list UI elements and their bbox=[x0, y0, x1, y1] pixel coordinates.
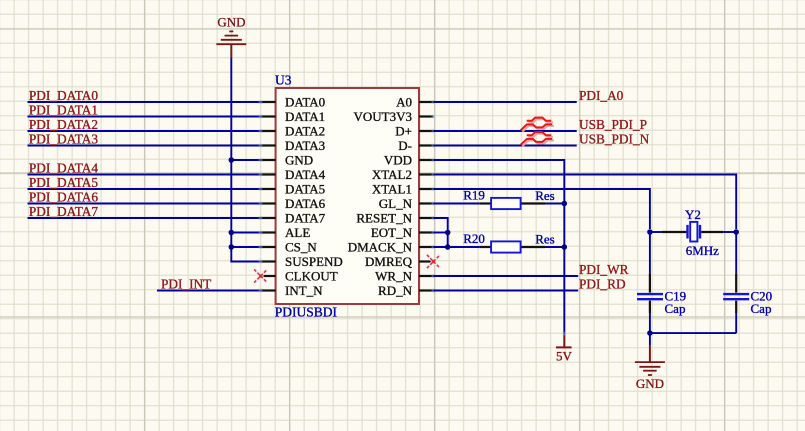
capacitor C19 bbox=[637, 273, 663, 313]
wire VDD net to 5V rail bbox=[434, 160, 565, 334]
wire C20 to ground rail bbox=[735, 313, 737, 333]
pin SUSPEND bbox=[259, 254, 343, 269]
resistor R19 bbox=[479, 198, 545, 209]
svg-text:GND: GND bbox=[285, 152, 313, 167]
pin EOT_N bbox=[371, 225, 436, 240]
wire GND pin row bbox=[231, 159, 260, 161]
svg-text:PDI_DATA7: PDI_DATA7 bbox=[29, 204, 98, 219]
wire R20 to 5V rail bbox=[545, 246, 564, 248]
power symbol GND (top) bbox=[216, 15, 246, 58]
svg-text:Y2: Y2 bbox=[685, 207, 701, 222]
svg-text:6MHz: 6MHz bbox=[686, 243, 719, 258]
capacitor C20 bbox=[723, 273, 749, 313]
wire XTAL2 down to C20 bbox=[735, 232, 737, 273]
wire R19 to 5V rail bbox=[545, 203, 564, 205]
pin VOUT3V3 bbox=[354, 109, 436, 124]
wire A0 net bbox=[434, 101, 577, 103]
pin A0 bbox=[396, 94, 435, 109]
svg-text:U3: U3 bbox=[275, 73, 292, 88]
svg-text:GND: GND bbox=[636, 376, 664, 391]
wire XTAL2 net bbox=[434, 175, 737, 230]
pin XTAL1 bbox=[372, 181, 436, 196]
svg-text:D-: D- bbox=[398, 138, 412, 153]
svg-text:Res: Res bbox=[535, 188, 555, 203]
pin DATA3 bbox=[259, 138, 326, 153]
svg-text:Cap: Cap bbox=[751, 301, 772, 316]
pin DATA7 bbox=[259, 210, 326, 225]
svg-text:D+: D+ bbox=[395, 123, 412, 138]
svg-text:PDI_DATA2: PDI_DATA2 bbox=[29, 117, 98, 132]
resistor R20 bbox=[479, 241, 545, 252]
svg-text:PDIUSBDI: PDIUSBDI bbox=[275, 304, 338, 319]
wire PDI_DATA0 bbox=[28, 101, 261, 103]
pin CS_N bbox=[259, 239, 318, 254]
svg-text:DATA0: DATA0 bbox=[285, 94, 325, 109]
pin XTAL2 bbox=[372, 167, 436, 182]
svg-text:XTAL2: XTAL2 bbox=[372, 167, 412, 182]
wire PDI_DATA2 bbox=[28, 130, 261, 132]
wire DMACK_N to R20 bbox=[434, 246, 480, 248]
wire C19 to ground rail bbox=[649, 313, 651, 333]
junction EOT_N bbox=[445, 230, 451, 236]
svg-text:DATA7: DATA7 bbox=[285, 210, 326, 225]
wire D- net bbox=[434, 145, 577, 147]
svg-text:Cap: Cap bbox=[665, 301, 686, 316]
wire PDI_DATA1 bbox=[28, 116, 261, 118]
svg-text:R20: R20 bbox=[463, 231, 485, 246]
svg-text:INT_N: INT_N bbox=[285, 283, 323, 298]
pin D- bbox=[398, 138, 435, 153]
wire WR_N net bbox=[434, 275, 579, 277]
svg-text:SUSPEND: SUSPEND bbox=[285, 254, 343, 269]
svg-text:CS_N: CS_N bbox=[285, 239, 317, 254]
junction R20/5V rail bbox=[562, 244, 568, 250]
svg-text:DMACK_N: DMACK_N bbox=[348, 239, 413, 254]
wire PDI_DATA7 bbox=[28, 217, 261, 219]
pin DATA4 bbox=[259, 167, 326, 182]
pin WR_N bbox=[375, 268, 435, 283]
svg-text:GND: GND bbox=[217, 15, 245, 30]
junction at GND pin bbox=[229, 157, 235, 163]
pin ALE bbox=[259, 225, 311, 240]
wire PDI_DATA4 bbox=[28, 174, 261, 176]
svg-text:EOT_N: EOT_N bbox=[371, 225, 413, 240]
pin DATA2 bbox=[259, 123, 326, 138]
pin VDD bbox=[384, 152, 436, 167]
svg-text:XTAL1: XTAL1 bbox=[372, 181, 412, 196]
svg-text:GL_N: GL_N bbox=[379, 196, 413, 211]
svg-text:DMREQ: DMREQ bbox=[365, 254, 413, 269]
svg-text:DATA2: DATA2 bbox=[285, 123, 325, 138]
wire crystal right stub bbox=[723, 231, 736, 233]
svg-text:PDI_A0: PDI_A0 bbox=[579, 88, 624, 103]
svg-text:USB_PDI_P: USB_PDI_P bbox=[579, 117, 647, 132]
wire XTAL1 down to C19 bbox=[649, 232, 651, 273]
svg-text:RESET_N: RESET_N bbox=[356, 210, 412, 225]
svg-text:PDI_DATA5: PDI_DATA5 bbox=[29, 175, 98, 190]
wire PDI_INT bbox=[157, 290, 261, 292]
no-ERC marker at DMREQ bbox=[427, 255, 440, 268]
wire RD_N net bbox=[434, 290, 579, 292]
wire XTAL1 net bbox=[434, 189, 650, 229]
wire ground rail bbox=[650, 332, 736, 334]
wire PDI_DATA5 bbox=[28, 188, 261, 190]
svg-text:PDI_DATA1: PDI_DATA1 bbox=[29, 103, 98, 118]
wire RESET_N net bbox=[434, 218, 448, 247]
svg-text:PDI_DATA3: PDI_DATA3 bbox=[29, 132, 98, 147]
pin DATA6 bbox=[259, 196, 326, 211]
junction DMACK_N bbox=[445, 244, 451, 250]
junction ground rail bbox=[647, 330, 653, 336]
pin GL_N bbox=[379, 196, 436, 211]
svg-text:VOUT3V3: VOUT3V3 bbox=[354, 109, 413, 124]
pin RD_N bbox=[378, 283, 435, 298]
svg-text:VDD: VDD bbox=[384, 152, 412, 167]
svg-text:RD_N: RD_N bbox=[378, 283, 413, 298]
svg-text:R19: R19 bbox=[463, 188, 485, 203]
wire GL_N to R19 bbox=[434, 203, 480, 205]
svg-text:PDI_DATA0: PDI_DATA0 bbox=[29, 88, 98, 103]
junction XTAL1/crystal/C19 bbox=[647, 229, 653, 235]
svg-text:DATA3: DATA3 bbox=[285, 138, 325, 153]
svg-text:PDI_WR: PDI_WR bbox=[579, 262, 629, 277]
svg-text:USB_PDI_N: USB_PDI_N bbox=[579, 132, 650, 147]
wire ALE row bbox=[231, 232, 260, 234]
wire CS_N row bbox=[231, 246, 260, 248]
wire EOT_N net bbox=[434, 232, 448, 234]
junction at CS_N bbox=[229, 244, 235, 250]
power symbol 5V bbox=[556, 332, 573, 364]
crystal Y2 bbox=[662, 222, 723, 242]
pin GND bbox=[259, 152, 314, 167]
differential pair marker (D-) bbox=[522, 134, 554, 147]
wire PDI_DATA6 bbox=[28, 203, 261, 205]
svg-text:PDI_INT: PDI_INT bbox=[161, 277, 211, 292]
IC U3 PDIUSBD12 body bbox=[276, 88, 419, 304]
pin DATA1 bbox=[259, 109, 326, 124]
pin DATA0 bbox=[259, 94, 326, 109]
junction R19/5V rail bbox=[562, 201, 568, 207]
junction at ALE bbox=[229, 230, 235, 236]
wire D+ net bbox=[434, 130, 577, 132]
svg-text:ALE: ALE bbox=[285, 225, 310, 240]
svg-text:DATA6: DATA6 bbox=[285, 196, 326, 211]
wire ground stub bbox=[649, 333, 651, 346]
no-ERC marker at CLKOUT bbox=[254, 269, 267, 282]
pin INT_N bbox=[259, 283, 324, 298]
power symbol GND (bottom) bbox=[635, 346, 665, 392]
wire SUSPEND row bbox=[231, 261, 260, 263]
junction XTAL2/crystal/C20 bbox=[733, 229, 739, 235]
svg-text:PDI_RD: PDI_RD bbox=[579, 277, 626, 292]
wire crystal left stub bbox=[650, 231, 662, 233]
pin DATA5 bbox=[259, 181, 326, 196]
wire GND net vertical bbox=[230, 57, 232, 262]
pin DMREQ bbox=[365, 254, 433, 269]
pin DMACK_N bbox=[348, 239, 436, 254]
svg-text:PDI_DATA4: PDI_DATA4 bbox=[29, 161, 98, 176]
svg-text:CLKOUT: CLKOUT bbox=[285, 268, 338, 283]
differential pair marker (D+) bbox=[522, 119, 554, 132]
svg-text:WR_N: WR_N bbox=[375, 268, 412, 283]
svg-text:DATA1: DATA1 bbox=[285, 109, 325, 124]
pin RESET_N bbox=[356, 210, 435, 225]
svg-text:DATA4: DATA4 bbox=[285, 167, 326, 182]
svg-text:PDI_DATA6: PDI_DATA6 bbox=[29, 190, 98, 205]
svg-text:DATA5: DATA5 bbox=[285, 181, 325, 196]
svg-text:5V: 5V bbox=[556, 348, 573, 363]
svg-text:A0: A0 bbox=[396, 94, 412, 109]
wire PDI_DATA3 bbox=[28, 145, 261, 147]
svg-text:Res: Res bbox=[535, 231, 555, 246]
pin CLKOUT bbox=[261, 268, 338, 283]
pin D+ bbox=[395, 123, 435, 138]
